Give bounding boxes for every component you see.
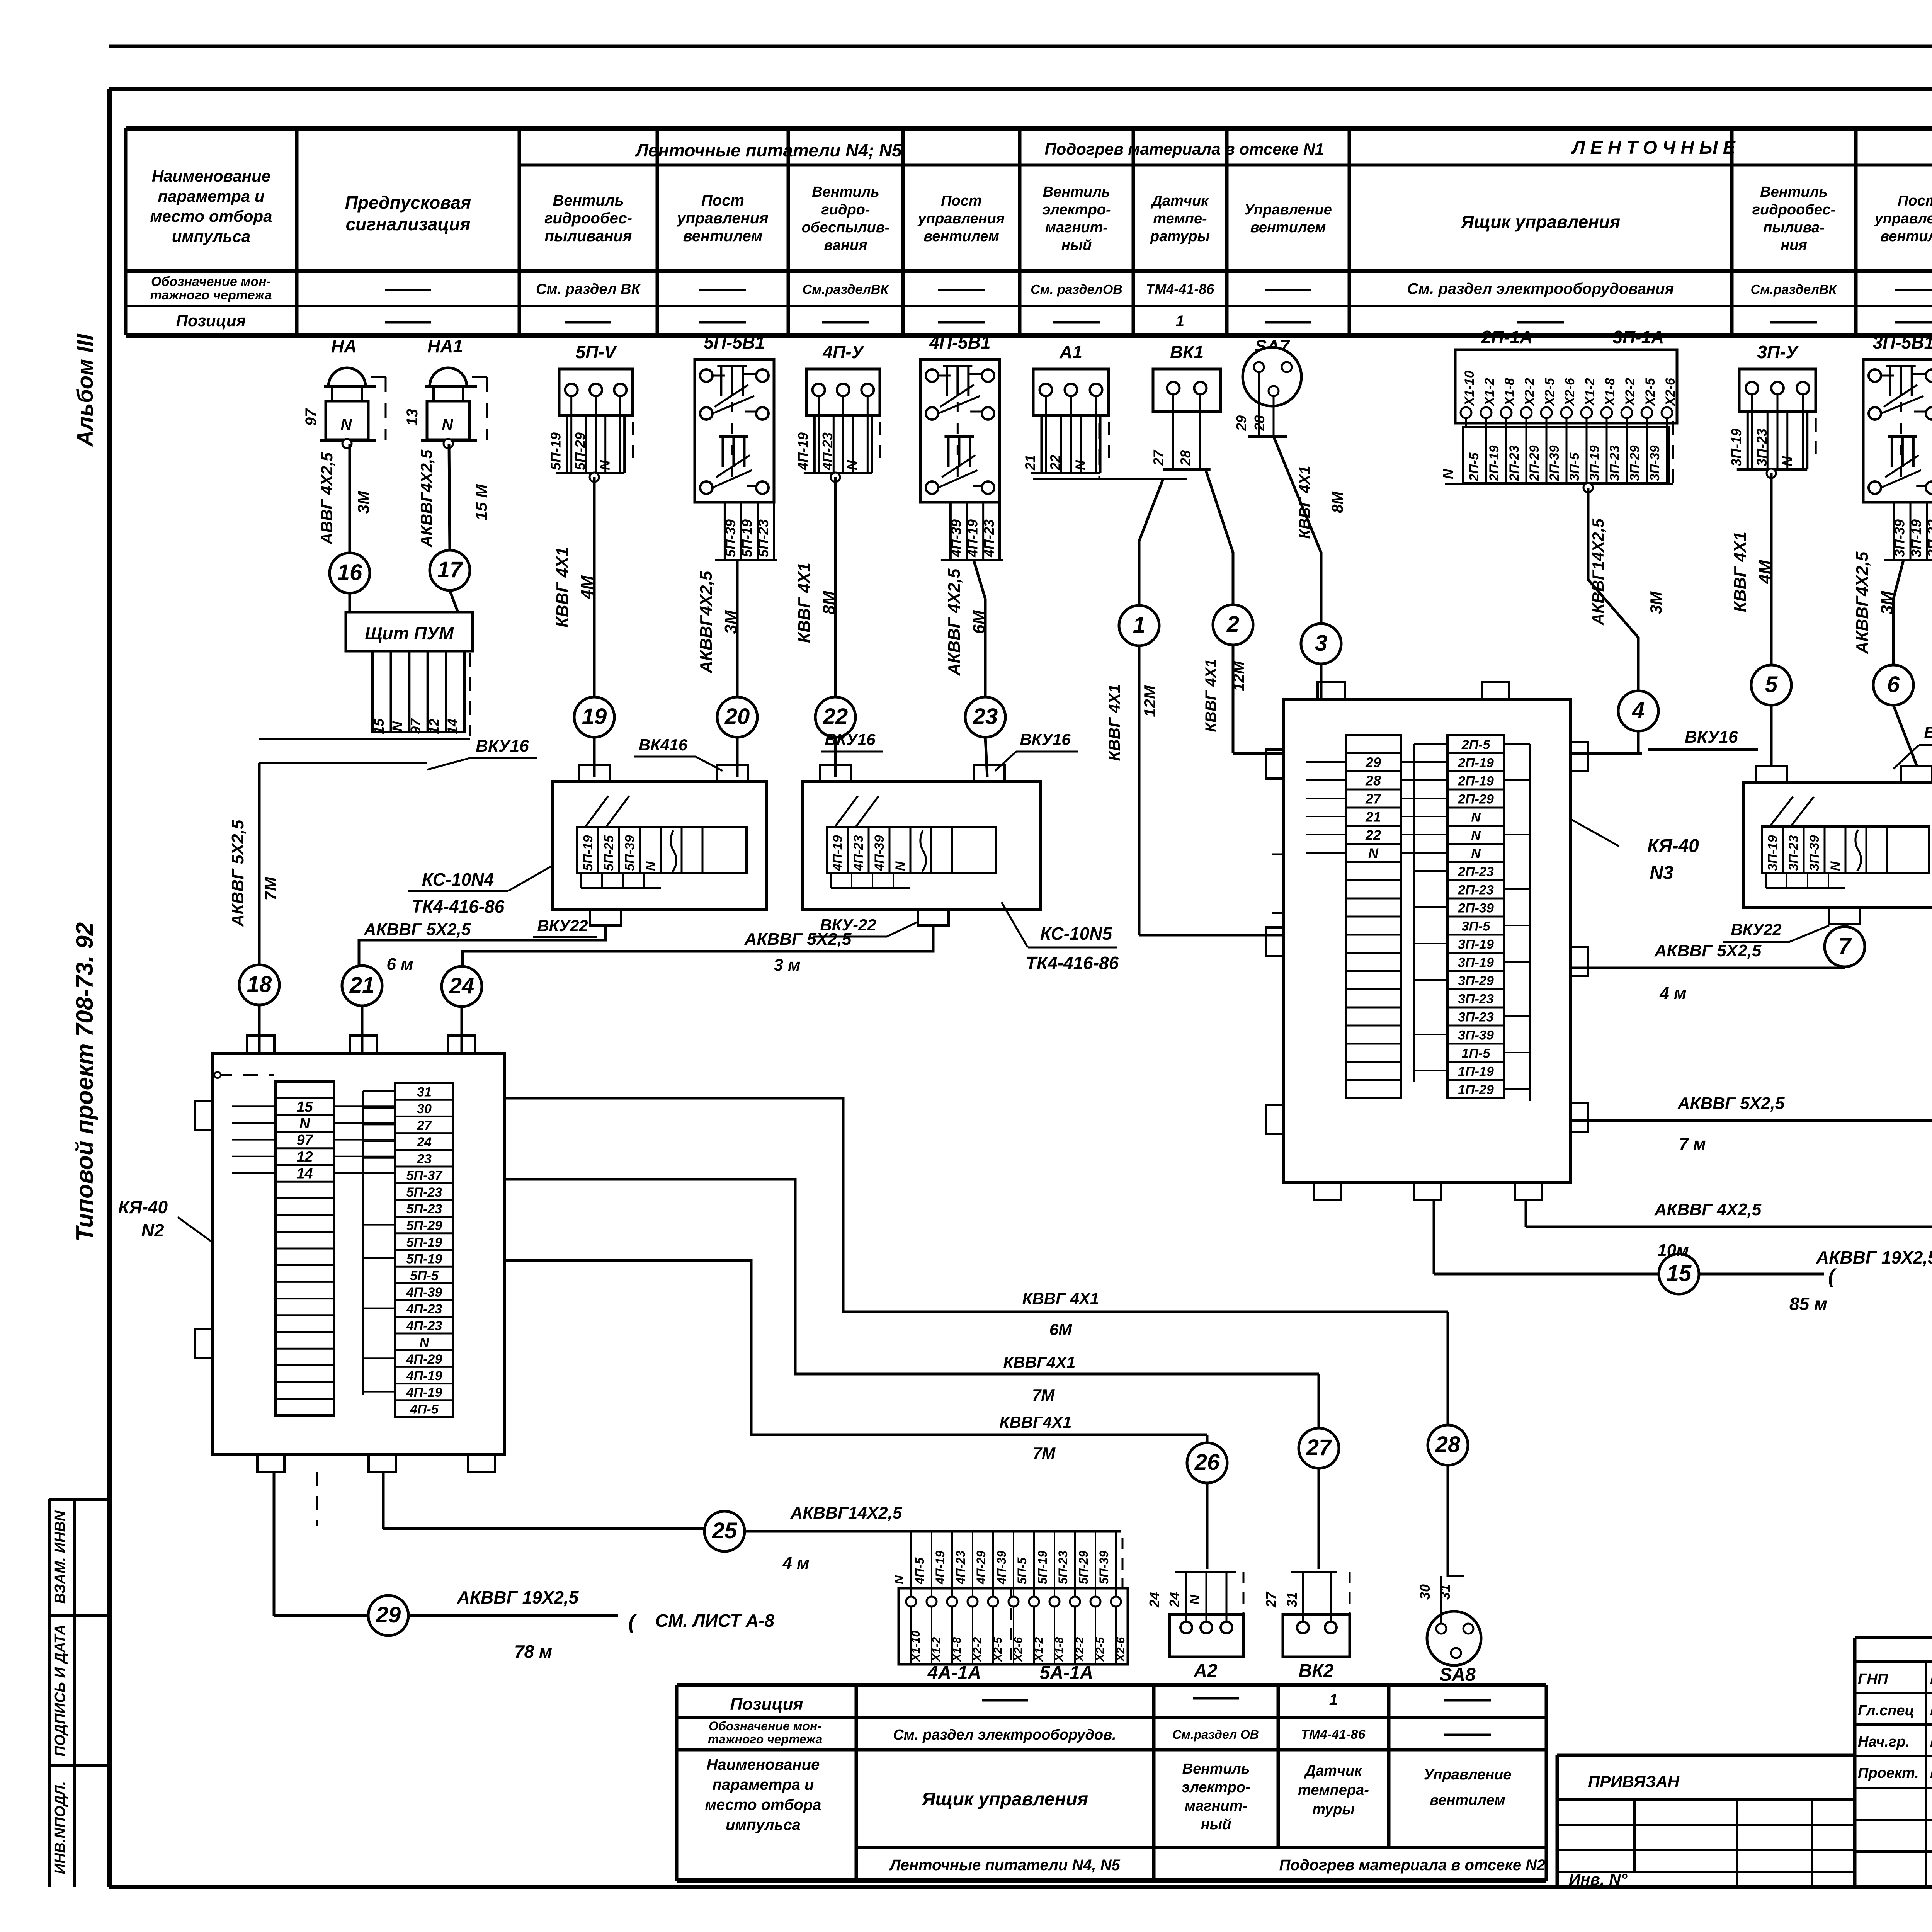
- svg-text:Х2-2: Х2-2: [1073, 1637, 1086, 1662]
- svg-text:гидрообес-: гидрообес-: [1752, 202, 1836, 218]
- svg-text:5П-29: 5П-29: [572, 432, 588, 470]
- svg-text:5П-25: 5П-25: [602, 835, 616, 871]
- svg-text:2П-19: 2П-19: [1458, 774, 1494, 789]
- svg-text:Пост: Пост: [941, 193, 981, 209]
- svg-text:14: 14: [444, 719, 460, 734]
- svg-text:16: 16: [337, 560, 362, 585]
- svg-text:вентилем: вентилем: [1430, 1792, 1505, 1808]
- svg-text:10м: 10м: [1657, 1241, 1689, 1260]
- svg-text:Позиция: Позиция: [730, 1695, 803, 1714]
- svg-text:См. раздел ВК: См. раздел ВК: [536, 281, 641, 298]
- svg-text:Х2-6: Х2-6: [1663, 378, 1678, 406]
- svg-text:ВКУ16: ВКУ16: [1020, 730, 1071, 748]
- svg-text:См.разделВК: См.разделВК: [1751, 282, 1838, 297]
- svg-text:4П-19: 4П-19: [830, 835, 845, 871]
- svg-text:вентилем: вентилем: [1250, 219, 1326, 236]
- svg-text:4 м: 4 м: [782, 1554, 809, 1573]
- svg-text:Х2-5: Х2-5: [1094, 1636, 1107, 1662]
- svg-text:Л Е Н Т О Ч Н Ы Е: Л Е Н Т О Ч Н Ы Е: [1571, 138, 1736, 158]
- svg-text:туры: туры: [1312, 1801, 1355, 1818]
- svg-text:3П-19: 3П-19: [1765, 835, 1780, 871]
- svg-text:АКВВГ 19Х2,5: АКВВГ 19Х2,5: [457, 1587, 579, 1607]
- svg-text:ВК2: ВК2: [1299, 1661, 1334, 1681]
- svg-text:30: 30: [1417, 1584, 1433, 1600]
- svg-text:КВВГ 4Х1: КВВГ 4Х1: [1022, 1289, 1099, 1308]
- svg-text:4П-5: 4П-5: [913, 1557, 927, 1585]
- svg-text:4А-1А: 4А-1А: [927, 1663, 981, 1683]
- svg-text:5П-19: 5П-19: [406, 1252, 442, 1267]
- svg-text:4П-23: 4П-23: [406, 1302, 442, 1316]
- svg-text:ВК416: ВК416: [639, 736, 688, 754]
- svg-text:5П-5: 5П-5: [410, 1269, 439, 1283]
- svg-text:Х2-5: Х2-5: [992, 1636, 1004, 1662]
- svg-text:24: 24: [1146, 1592, 1162, 1608]
- svg-text:20: 20: [724, 704, 750, 729]
- svg-text:5П-39: 5П-39: [1097, 1551, 1111, 1584]
- svg-text:3П-29: 3П-29: [1458, 974, 1494, 988]
- svg-text:18: 18: [247, 972, 272, 997]
- svg-text:1П-5: 1П-5: [1462, 1046, 1491, 1061]
- svg-text:место отбора: место отбора: [705, 1796, 821, 1813]
- svg-text:КВВГ 4Х1: КВВГ 4Х1: [1105, 684, 1123, 761]
- svg-text:Ленточные питатели N4; N5: Ленточные питатели N4; N5: [635, 140, 902, 160]
- svg-text:КВВГ 4Х1: КВВГ 4Х1: [1202, 659, 1219, 732]
- svg-text:4П-39: 4П-39: [872, 835, 887, 871]
- svg-text:Пост: Пост: [1898, 193, 1932, 209]
- svg-text:4П-19: 4П-19: [964, 519, 980, 558]
- svg-text:См. раздел электрооборудования: См. раздел электрооборудования: [1407, 281, 1674, 298]
- svg-text:3П-19: 3П-19: [1728, 429, 1744, 466]
- svg-text:3П-19: 3П-19: [1587, 445, 1602, 481]
- svg-text:N: N: [597, 460, 612, 470]
- svg-text:См. разделОВ: См. разделОВ: [1031, 282, 1122, 297]
- svg-text:97: 97: [408, 718, 423, 734]
- svg-text:3П-23: 3П-23: [1925, 519, 1932, 557]
- svg-text:магнит-: магнит-: [1045, 219, 1108, 236]
- svg-text:3П-23: 3П-23: [1786, 835, 1801, 871]
- svg-text:4П-23: 4П-23: [954, 1551, 968, 1585]
- svg-text:15: 15: [371, 718, 387, 734]
- svg-text:N: N: [341, 416, 352, 433]
- svg-text:13: 13: [404, 409, 421, 426]
- svg-text:ИНВ.NПОДЛ.: ИНВ.NПОДЛ.: [52, 1781, 68, 1874]
- svg-text:4М: 4М: [1755, 560, 1774, 584]
- svg-text:12М: 12М: [1141, 685, 1159, 717]
- svg-text:3: 3: [1315, 631, 1327, 656]
- svg-text:5П-23: 5П-23: [1056, 1551, 1070, 1584]
- svg-text:Вентиль: Вентиль: [812, 184, 879, 200]
- svg-text:3П-5: 3П-5: [1567, 452, 1582, 481]
- svg-text:1: 1: [1176, 313, 1184, 330]
- svg-text:ВКУ16: ВКУ16: [476, 736, 529, 755]
- svg-text:5П-19: 5П-19: [406, 1235, 442, 1250]
- svg-text:31: 31: [1437, 1584, 1453, 1600]
- svg-text:КЯ-40: КЯ-40: [1647, 836, 1699, 856]
- svg-text:АКВВГ4Х2,5: АКВВГ4Х2,5: [417, 449, 435, 548]
- svg-text:3П-23: 3П-23: [1458, 1010, 1494, 1025]
- svg-text:4П-5В1: 4П-5В1: [929, 332, 990, 352]
- svg-text:АКВВГ4Х2,5: АКВВГ4Х2,5: [1853, 551, 1872, 654]
- svg-text:4П-19: 4П-19: [933, 1551, 947, 1585]
- svg-text:2П-23: 2П-23: [1507, 445, 1522, 481]
- svg-text:28: 28: [1435, 1432, 1461, 1457]
- svg-text:27: 27: [1263, 1591, 1279, 1608]
- svg-text:Коренков: Коренков: [1930, 1671, 1932, 1687]
- svg-text:Х1-10: Х1-10: [1462, 371, 1477, 406]
- svg-text:7: 7: [1838, 934, 1852, 959]
- svg-text:5П-19: 5П-19: [1036, 1551, 1049, 1584]
- svg-text:Гл.спец: Гл.спец: [1858, 1702, 1914, 1719]
- svg-text:параметра и: параметра и: [158, 187, 264, 205]
- svg-text:5П-19: 5П-19: [548, 432, 564, 470]
- svg-text:5П-37: 5П-37: [406, 1168, 443, 1183]
- svg-text:4П-23: 4П-23: [851, 835, 866, 871]
- svg-text:Обозначение мон-: Обозначение мон-: [151, 274, 271, 289]
- svg-text:6: 6: [1887, 672, 1900, 697]
- svg-text:3П-39: 3П-39: [1648, 445, 1662, 481]
- svg-text:управления: управления: [917, 211, 1005, 227]
- svg-text:ный: ный: [1201, 1816, 1231, 1833]
- svg-text:4П-23: 4П-23: [820, 432, 835, 471]
- svg-text:5П-29: 5П-29: [406, 1218, 442, 1233]
- svg-text:Х1-10: Х1-10: [910, 1631, 922, 1662]
- svg-text:Х1-8: Х1-8: [1053, 1637, 1066, 1662]
- svg-text:Х1-8: Х1-8: [1603, 378, 1617, 406]
- svg-text:управления: управления: [1874, 211, 1932, 227]
- svg-text:пыливания: пыливания: [545, 228, 632, 245]
- svg-text:85 м: 85 м: [1789, 1294, 1827, 1314]
- svg-text:21: 21: [1022, 455, 1038, 471]
- svg-text:вентилем: вентилем: [923, 228, 999, 245]
- svg-text:N: N: [1471, 847, 1481, 861]
- svg-text:Х2-6: Х2-6: [1563, 378, 1577, 406]
- svg-text:5П-V: 5П-V: [576, 342, 617, 362]
- svg-text:4П-23: 4П-23: [981, 519, 997, 558]
- svg-text:2П-23: 2П-23: [1458, 883, 1494, 898]
- svg-text:гидро-: гидро-: [821, 202, 870, 218]
- svg-text:Вентиль: Вентиль: [1760, 184, 1828, 200]
- svg-text:Инв. N°: Инв. N°: [1569, 1870, 1628, 1888]
- svg-text:АКВВГ 4Х2,5: АКВВГ 4Х2,5: [945, 568, 964, 676]
- svg-text:30: 30: [417, 1102, 432, 1116]
- svg-text:АКВВГ 4Х2,5: АКВВГ 4Х2,5: [1654, 1200, 1762, 1219]
- svg-text:Альбом III: Альбом III: [73, 333, 98, 447]
- svg-text:3П-19: 3П-19: [1458, 956, 1494, 970]
- svg-text:3М: 3М: [1647, 591, 1665, 614]
- svg-text:2П-19: 2П-19: [1458, 756, 1494, 770]
- svg-text:ратуры: ратуры: [1150, 228, 1210, 245]
- svg-text:31: 31: [1284, 1592, 1300, 1607]
- svg-text:КС-10N5: КС-10N5: [1040, 923, 1113, 944]
- svg-text:ния: ния: [1781, 237, 1807, 253]
- svg-text:24: 24: [1167, 1592, 1182, 1608]
- svg-text:Ленточные питатели N4, N5: Ленточные питатели N4, N5: [889, 1857, 1120, 1874]
- svg-text:Х2-2: Х2-2: [971, 1637, 984, 1662]
- svg-text:А1: А1: [1059, 342, 1082, 362]
- svg-text:4М: 4М: [578, 575, 597, 599]
- svg-text:N2: N2: [141, 1220, 164, 1240]
- svg-text:КВВГ4Х1: КВВГ4Х1: [1003, 1353, 1076, 1371]
- svg-text:N: N: [1187, 1594, 1202, 1605]
- svg-text:Х2-2: Х2-2: [1522, 378, 1537, 406]
- svg-text:7М: 7М: [1033, 1444, 1056, 1462]
- svg-text:12: 12: [296, 1149, 313, 1165]
- svg-text:4П-39: 4П-39: [995, 1551, 1009, 1585]
- svg-text:5П-39: 5П-39: [622, 835, 637, 871]
- svg-text:ТК4-416-86: ТК4-416-86: [1026, 953, 1119, 973]
- svg-text:15 М: 15 М: [472, 484, 490, 520]
- svg-text:тажного чертежа: тажного чертежа: [708, 1732, 823, 1746]
- svg-text:ТМ4-41-86: ТМ4-41-86: [1146, 281, 1214, 297]
- svg-text:параметра и: параметра и: [713, 1776, 814, 1793]
- svg-text:Проект.: Проект.: [1858, 1765, 1919, 1781]
- svg-text:АКВВГ 19Х2,5: АКВВГ 19Х2,5: [1816, 1247, 1932, 1267]
- svg-text:Пост: Пост: [701, 192, 744, 209]
- svg-text:АКВВГ 5Х2,5: АКВВГ 5Х2,5: [744, 930, 852, 949]
- svg-text:5П-29: 5П-29: [1077, 1551, 1090, 1584]
- svg-text:Нач.гр.: Нач.гр.: [1858, 1734, 1910, 1750]
- svg-text:ВКУ16: ВКУ16: [1924, 723, 1932, 742]
- svg-text:78 м: 78 м: [514, 1641, 552, 1662]
- svg-text:N: N: [893, 861, 908, 871]
- svg-text:Датчик: Датчик: [1304, 1763, 1363, 1779]
- svg-text:19: 19: [582, 704, 607, 729]
- svg-text:2П-5: 2П-5: [1461, 738, 1491, 752]
- svg-text:3П-19: 3П-19: [1458, 937, 1494, 952]
- svg-text:Вентиль: Вентиль: [553, 192, 624, 209]
- svg-text:2П-23: 2П-23: [1458, 865, 1494, 879]
- svg-text:Подогрев материала в отсеке N1: Подогрев материала в отсеке N1: [1044, 140, 1324, 158]
- svg-text:31: 31: [417, 1085, 432, 1100]
- svg-text:вентилем: вентилем: [683, 228, 763, 245]
- svg-text:электро-: электро-: [1042, 202, 1111, 218]
- svg-text:вания: вания: [824, 237, 867, 253]
- svg-text:2П-5: 2П-5: [1467, 452, 1481, 481]
- svg-text:Евстегнеева: Евстегнеева: [1930, 1765, 1932, 1781]
- svg-text:4П-39: 4П-39: [406, 1285, 442, 1300]
- svg-text:N: N: [420, 1335, 430, 1350]
- svg-text:N: N: [1440, 469, 1456, 479]
- svg-text:4П-29: 4П-29: [406, 1352, 442, 1367]
- svg-text:5П-5В1: 5П-5В1: [704, 332, 765, 352]
- svg-text:1П-19: 1П-19: [1458, 1065, 1494, 1079]
- svg-text:N: N: [1368, 845, 1379, 861]
- svg-text:Позиция: Позиция: [176, 311, 246, 330]
- svg-text:3П-У: 3П-У: [1757, 342, 1799, 362]
- svg-text:4П-19: 4П-19: [406, 1385, 442, 1400]
- svg-text:2П-39: 2П-39: [1547, 445, 1562, 481]
- svg-text:Пупков: Пупков: [1930, 1702, 1932, 1719]
- svg-text:Х1-8: Х1-8: [951, 1637, 963, 1662]
- svg-text:Х2-6: Х2-6: [1012, 1637, 1025, 1662]
- svg-text:5П-39: 5П-39: [723, 519, 738, 557]
- svg-text:N: N: [643, 861, 658, 871]
- svg-text:2П-19: 2П-19: [1487, 445, 1502, 481]
- svg-text:27: 27: [1306, 1435, 1332, 1460]
- svg-text:4 м: 4 м: [1659, 984, 1686, 1003]
- svg-text:14: 14: [296, 1166, 313, 1182]
- svg-text:1: 1: [1133, 612, 1145, 638]
- svg-text:Типовой проект 708-73. 92: Типовой проект 708-73. 92: [71, 922, 98, 1242]
- svg-text:НА1: НА1: [427, 336, 463, 356]
- svg-text:ВКУ22: ВКУ22: [537, 917, 588, 935]
- svg-text:5: 5: [1765, 672, 1778, 697]
- svg-text:N3: N3: [1650, 863, 1673, 883]
- svg-text:Подогрев материала в отсеке: Подогрев материала в отсеке N2: [1279, 1857, 1546, 1874]
- svg-text:21: 21: [349, 973, 375, 998]
- svg-text:24: 24: [449, 973, 474, 998]
- svg-text:См.разделВК: См.разделВК: [803, 282, 889, 297]
- svg-text:28: 28: [1178, 450, 1194, 466]
- svg-text:3П-23: 3П-23: [1754, 429, 1770, 466]
- svg-text:ВЗАМ. ИНВN: ВЗАМ. ИНВN: [52, 1510, 68, 1604]
- svg-text:4П-39: 4П-39: [948, 519, 964, 558]
- svg-text:ПОДПИСЬ И ДАТА: ПОДПИСЬ И ДАТА: [52, 1624, 68, 1757]
- svg-text:АКВВГ 5Х2,5: АКВВГ 5Х2,5: [1677, 1094, 1785, 1113]
- svg-text:Х1-2: Х1-2: [930, 1637, 943, 1662]
- svg-text:Х2-6: Х2-6: [1114, 1637, 1127, 1662]
- svg-text:8М: 8М: [1329, 491, 1346, 513]
- svg-text:См.раздел ОВ: См.раздел ОВ: [1172, 1728, 1259, 1742]
- svg-text:15: 15: [1667, 1261, 1692, 1286]
- svg-text:22: 22: [1365, 827, 1381, 843]
- svg-text:3П-1А: 3П-1А: [1613, 327, 1664, 347]
- svg-text:4П-23: 4П-23: [406, 1318, 442, 1333]
- svg-text:22: 22: [1048, 455, 1063, 471]
- svg-text:27: 27: [1151, 449, 1167, 466]
- svg-text:АКВВГ14Х2,5: АКВВГ14Х2,5: [790, 1503, 902, 1522]
- svg-text:28: 28: [1252, 415, 1267, 431]
- svg-text:7М: 7М: [261, 876, 280, 900]
- svg-text:3 м: 3 м: [774, 956, 800, 975]
- svg-text:Наименование: Наименование: [152, 167, 270, 185]
- svg-text:АКВВГ 5Х2,5: АКВВГ 5Х2,5: [1654, 941, 1762, 960]
- svg-text:ТМ4-41-86: ТМ4-41-86: [1301, 1727, 1366, 1742]
- svg-text:ный: ный: [1061, 237, 1092, 253]
- svg-text:КВВГ4Х1: КВВГ4Х1: [1000, 1413, 1072, 1431]
- svg-text:темпера-: темпера-: [1298, 1782, 1369, 1798]
- svg-text:Х1-2: Х1-2: [1482, 378, 1497, 406]
- svg-text:2П-29: 2П-29: [1527, 445, 1542, 481]
- svg-text:Ящик управления: Ящик управления: [1461, 212, 1620, 232]
- svg-text:5П-5: 5П-5: [1015, 1557, 1029, 1584]
- svg-text:2П-39: 2П-39: [1458, 901, 1494, 916]
- svg-text:N: N: [299, 1116, 311, 1132]
- svg-text:место отбора: место отбора: [150, 207, 272, 225]
- svg-text:6М: 6М: [969, 610, 988, 634]
- svg-text:Ящик управления: Ящик управления: [921, 1789, 1088, 1810]
- svg-text:управления: управления: [676, 210, 768, 227]
- svg-text:5П-19: 5П-19: [739, 519, 755, 557]
- svg-text:КЯ-40: КЯ-40: [118, 1197, 168, 1217]
- svg-text:ВКУ16: ВКУ16: [825, 730, 876, 748]
- svg-text:27: 27: [1365, 791, 1382, 807]
- svg-text:3М: 3М: [1878, 590, 1896, 614]
- svg-text:ГНП: ГНП: [1858, 1671, 1888, 1687]
- svg-text:электро-: электро-: [1182, 1779, 1250, 1796]
- svg-text:23: 23: [417, 1151, 432, 1166]
- svg-text:N: N: [1779, 456, 1795, 466]
- svg-text:8М: 8М: [820, 590, 838, 614]
- svg-text:26: 26: [1194, 1450, 1220, 1475]
- svg-text:3П-39: 3П-39: [1807, 835, 1822, 871]
- svg-text:N: N: [892, 1575, 906, 1584]
- svg-text:4П-У: 4П-У: [822, 342, 865, 362]
- svg-text:КС-10N4: КС-10N4: [422, 869, 494, 889]
- svg-text:29: 29: [376, 1602, 401, 1628]
- svg-text:3П-29: 3П-29: [1628, 445, 1642, 481]
- svg-text:2: 2: [1226, 612, 1239, 637]
- svg-text:5П-19: 5П-19: [581, 835, 595, 871]
- svg-text:5П-23: 5П-23: [755, 519, 771, 557]
- svg-text:Василевич: Василевич: [1930, 1734, 1932, 1750]
- svg-text:23: 23: [973, 704, 998, 729]
- svg-text:25: 25: [712, 1518, 737, 1543]
- svg-text:Х2-5: Х2-5: [1543, 378, 1557, 406]
- svg-text:28: 28: [1365, 773, 1381, 789]
- svg-text:ВКУ16: ВКУ16: [1685, 728, 1738, 747]
- svg-text:АКВВГ14Х2,5: АКВВГ14Х2,5: [1589, 519, 1607, 626]
- svg-text:КВВГ 4Х1: КВВГ 4Х1: [553, 547, 572, 628]
- svg-text:2П-29: 2П-29: [1458, 792, 1494, 807]
- svg-text:тажного чертежа: тажного чертежа: [150, 288, 272, 303]
- svg-text:3П-5В1: 3П-5В1: [1873, 332, 1932, 352]
- svg-text:ВК1: ВК1: [1170, 342, 1204, 362]
- svg-text:1П-29: 1П-29: [1458, 1083, 1494, 1097]
- svg-text:ТК4-416-86: ТК4-416-86: [412, 896, 505, 917]
- svg-text:4П-29: 4П-29: [974, 1551, 988, 1585]
- svg-text:3П-5: 3П-5: [1462, 919, 1491, 934]
- svg-text:N: N: [1073, 460, 1088, 470]
- svg-text:7М: 7М: [1032, 1386, 1055, 1404]
- svg-text:АКВВГ 5Х2,5: АКВВГ 5Х2,5: [364, 920, 471, 939]
- svg-text:АКВВГ4Х2,5: АКВВГ4Х2,5: [697, 571, 716, 673]
- svg-text:Вентиль: Вентиль: [1043, 184, 1111, 200]
- svg-text:97: 97: [303, 408, 320, 426]
- svg-text:Управление: Управление: [1244, 202, 1332, 218]
- svg-text:обеспылив-: обеспылив-: [802, 219, 890, 236]
- svg-text:3П-39: 3П-39: [1458, 1028, 1494, 1043]
- svg-text:гидрообес-: гидрообес-: [544, 210, 632, 227]
- svg-text:сигнализация: сигнализация: [346, 214, 471, 234]
- svg-text:N: N: [389, 721, 405, 731]
- svg-text:12: 12: [426, 719, 442, 734]
- svg-text:4: 4: [1632, 698, 1645, 723]
- svg-text:Вентиль: Вентиль: [1182, 1761, 1250, 1777]
- svg-text:ВКУ22: ВКУ22: [1731, 920, 1781, 939]
- svg-text:темпе-: темпе-: [1153, 211, 1207, 227]
- svg-text:5А-1А: 5А-1А: [1040, 1663, 1094, 1683]
- svg-text:1: 1: [1329, 1691, 1338, 1708]
- svg-text:29: 29: [1365, 755, 1381, 770]
- svg-text:SА8: SА8: [1439, 1665, 1476, 1685]
- svg-text:магнит-: магнит-: [1185, 1798, 1247, 1814]
- svg-text:КВВГ 4Х1: КВВГ 4Х1: [1296, 466, 1313, 539]
- svg-text:импульса: импульса: [172, 227, 251, 245]
- svg-text:КВВГ 4Х1: КВВГ 4Х1: [795, 563, 814, 643]
- svg-text:Обозначение мон-: Обозначение мон-: [709, 1719, 821, 1733]
- svg-text:Датчик: Датчик: [1151, 193, 1209, 209]
- svg-text:Управление: Управление: [1424, 1767, 1512, 1783]
- svg-text:N: N: [1471, 810, 1481, 825]
- svg-text:24: 24: [417, 1135, 432, 1150]
- svg-text:12М: 12М: [1230, 660, 1247, 691]
- svg-text:3М: 3М: [354, 491, 372, 514]
- svg-text:вентилем: вентилем: [1880, 228, 1932, 245]
- svg-text:ПРИВЯЗАН: ПРИВЯЗАН: [1588, 1772, 1680, 1791]
- svg-text:97: 97: [296, 1132, 313, 1148]
- svg-text:3П-39: 3П-39: [1892, 519, 1908, 557]
